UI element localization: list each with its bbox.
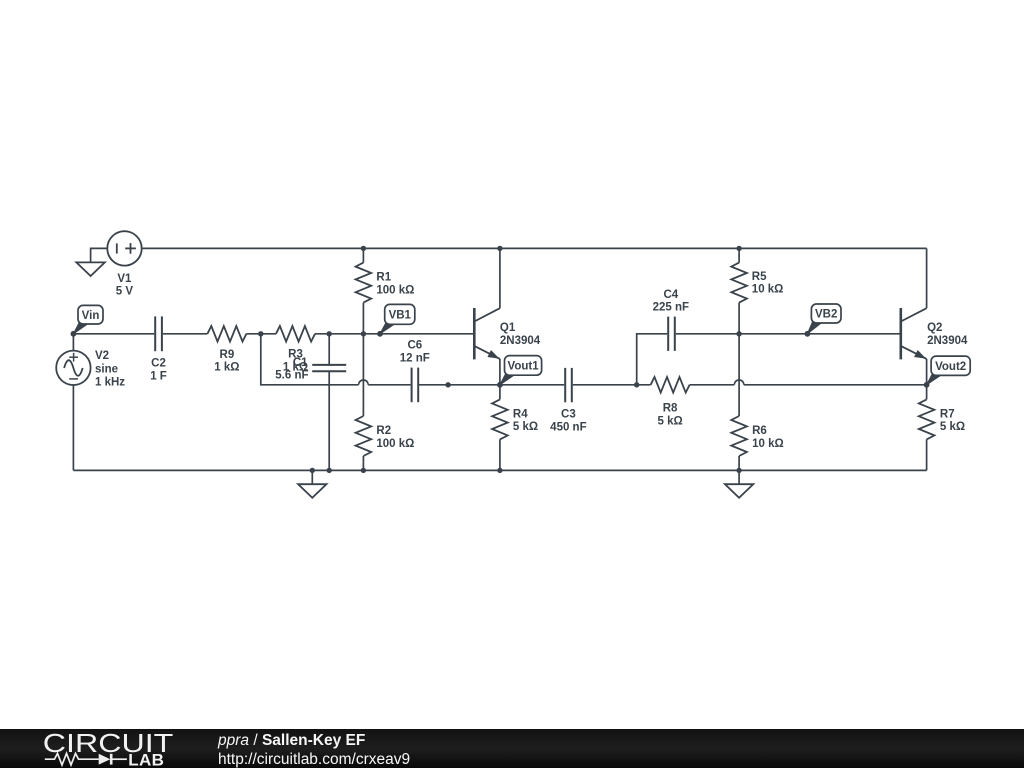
svg-text:V2: V2 bbox=[95, 350, 109, 362]
capacitor C1 bbox=[312, 365, 346, 371]
node label Vout2 bbox=[924, 356, 971, 388]
voltage source V2 bbox=[56, 351, 90, 385]
wire Vout1 to C3 bbox=[500, 384, 564, 386]
svg-text:R6: R6 bbox=[752, 425, 767, 437]
wire hop to Q2 emitter node bbox=[744, 384, 927, 386]
resistor R9 bbox=[207, 326, 246, 342]
svg-text:10 kΩ: 10 kΩ bbox=[752, 284, 784, 296]
wire hop over R5-R6 branch bbox=[734, 380, 744, 385]
wire Vin to C2 bbox=[73, 333, 154, 335]
label R4 5 kOhm bbox=[513, 409, 538, 433]
svg-text:C1: C1 bbox=[293, 357, 308, 369]
wire R4 top lead bbox=[499, 385, 501, 400]
svg-text:C2: C2 bbox=[151, 358, 166, 370]
svg-text:100 kΩ: 100 kΩ bbox=[376, 438, 414, 450]
wire Q1 emitter down bbox=[499, 359, 501, 385]
ground GND3 bbox=[725, 484, 753, 498]
node C6-Q1 wire junction bbox=[445, 382, 450, 387]
capacitor C4 bbox=[668, 317, 675, 351]
wire R2 top lead bbox=[362, 334, 364, 416]
node label Vin bbox=[71, 305, 104, 336]
svg-text:VB1: VB1 bbox=[389, 310, 412, 322]
label C1 5.6 nF bbox=[275, 357, 308, 382]
svg-text:Vout1: Vout1 bbox=[508, 361, 540, 373]
wire ground GND2 stem bbox=[311, 470, 313, 484]
svg-text:1 F: 1 F bbox=[150, 370, 167, 382]
voltage source V1 bbox=[107, 231, 141, 265]
node top rail R1 bbox=[361, 246, 366, 251]
label C6 12 nF bbox=[400, 340, 430, 365]
wire R5 bottom lead bbox=[738, 303, 740, 334]
node bottom rail R6-GND3 bbox=[736, 468, 741, 473]
wire C2 to R9 bbox=[163, 333, 208, 335]
wire R6 bottom lead bbox=[738, 456, 740, 470]
wire Q2 emitter down bbox=[926, 359, 928, 385]
label R7 5 kOhm bbox=[940, 409, 965, 433]
capacitor C3 bbox=[565, 368, 572, 402]
capacitor C2 bbox=[155, 316, 162, 351]
node bottom rail R2 bbox=[361, 468, 366, 473]
wire R2 bottom lead bbox=[362, 456, 364, 470]
resistor R6 bbox=[731, 416, 747, 456]
svg-text:12 nF: 12 nF bbox=[400, 352, 430, 364]
svg-text:5.6 nF: 5.6 nF bbox=[275, 370, 308, 382]
wire C1 branch top bbox=[328, 334, 330, 364]
svg-text:R8: R8 bbox=[663, 403, 678, 415]
wire V1 to ground bbox=[91, 248, 108, 262]
svg-text:Q1: Q1 bbox=[500, 322, 516, 334]
wire R7 bottom lead bbox=[926, 439, 928, 470]
node Vin vertical wire to V2 bbox=[72, 334, 74, 351]
label V2 sine 1 kHz bbox=[95, 350, 125, 388]
svg-text:R7: R7 bbox=[940, 409, 955, 421]
svg-text:100 kΩ: 100 kΩ bbox=[376, 285, 414, 297]
wire Q1 collector to rail bbox=[499, 248, 501, 308]
node label Vout1 bbox=[497, 356, 542, 388]
label Q1 2N3904 bbox=[500, 322, 541, 347]
resistor R2 bbox=[356, 416, 372, 456]
resistor R5 bbox=[731, 263, 747, 303]
svg-text:Q2: Q2 bbox=[927, 322, 942, 334]
wire R1 top lead bbox=[362, 248, 364, 262]
label R2 100 kOhm bbox=[376, 425, 414, 450]
svg-text:R5: R5 bbox=[752, 271, 767, 283]
svg-text:C6: C6 bbox=[407, 340, 422, 352]
wire hop to C6 bbox=[368, 384, 410, 386]
node top rail Q1 collector bbox=[497, 246, 502, 251]
svg-text:Vout2: Vout2 bbox=[935, 361, 966, 373]
wire C6 to Q1 emitter node bbox=[419, 384, 500, 386]
svg-text:Vin: Vin bbox=[82, 310, 100, 322]
svg-text:1 kΩ: 1 kΩ bbox=[214, 362, 239, 374]
wire V2 bottom to rail bbox=[72, 385, 74, 470]
svg-text:2N3904: 2N3904 bbox=[927, 335, 968, 347]
ground GND2 bbox=[298, 484, 326, 498]
wire R7 top lead bbox=[926, 385, 928, 400]
node C1 top junction bbox=[327, 331, 332, 336]
svg-text:450 nF: 450 nF bbox=[550, 421, 586, 433]
capacitor C6 bbox=[412, 368, 419, 403]
svg-text:5 kΩ: 5 kΩ bbox=[657, 415, 682, 427]
wire VB2 to Q2 base bbox=[739, 333, 901, 335]
svg-text:R2: R2 bbox=[376, 425, 391, 437]
transistor Q2 bbox=[901, 308, 927, 359]
label R1 100 kOhm bbox=[376, 272, 414, 297]
node A R9-R3 junction bbox=[258, 331, 263, 336]
svg-text:5 kΩ: 5 kΩ bbox=[940, 421, 965, 433]
svg-text:R4: R4 bbox=[513, 409, 528, 421]
svg-text:C3: C3 bbox=[561, 409, 576, 421]
resistor R4 bbox=[492, 399, 508, 439]
node C4 branch bottom bbox=[634, 382, 639, 387]
svg-text:5 kΩ: 5 kΩ bbox=[513, 421, 538, 433]
label R3 1 kOhm bbox=[283, 349, 308, 374]
node label VB1 bbox=[377, 304, 415, 336]
svg-text:5 V: 5 V bbox=[116, 285, 134, 297]
svg-text:C4: C4 bbox=[663, 289, 678, 301]
resistor R1 bbox=[356, 263, 372, 303]
node R1-R2 mid junction bbox=[361, 331, 366, 336]
label R9 1 kOhm bbox=[214, 349, 239, 374]
label Q2 2N3904 bbox=[927, 322, 968, 347]
transistor Q1 bbox=[474, 308, 500, 359]
resistor R7 bbox=[919, 399, 935, 439]
wire node A down-left loop bbox=[261, 334, 359, 385]
svg-text:VB2: VB2 bbox=[815, 309, 837, 321]
svg-text:LAB: LAB bbox=[128, 750, 164, 768]
wire ground GND3 stem bbox=[738, 470, 740, 484]
label C3 450 nF bbox=[550, 409, 586, 434]
node label VB2 bbox=[805, 304, 842, 337]
label R5 10 kOhm bbox=[752, 271, 784, 296]
svg-text:1 kHz: 1 kHz bbox=[95, 377, 125, 389]
wire top rail bbox=[142, 247, 927, 249]
wire C4 to R5 node bbox=[676, 333, 739, 335]
label R6 10 kOhm bbox=[752, 425, 784, 450]
wire bottom rail bbox=[73, 469, 926, 471]
wire R1 bottom lead bbox=[362, 303, 364, 334]
svg-text:R1: R1 bbox=[376, 272, 391, 284]
svg-text:2N3904: 2N3904 bbox=[500, 335, 541, 347]
node bottom rail R4 bbox=[497, 468, 502, 473]
wire R6 top lead bbox=[738, 334, 740, 416]
wire R4 bottom lead bbox=[499, 439, 501, 470]
wire R3 to Q1 base bbox=[315, 333, 474, 335]
credit text bbox=[218, 731, 410, 768]
wire R9 to R3 bbox=[246, 333, 276, 335]
label C2 1 F bbox=[150, 358, 167, 383]
wire C3 to node B bbox=[573, 384, 651, 386]
label R8 5 kOhm bbox=[657, 403, 682, 428]
resistor R3 bbox=[276, 326, 315, 342]
wire C1 branch bottom bbox=[328, 372, 330, 470]
footer bar bbox=[0, 729, 1024, 768]
svg-text:R9: R9 bbox=[220, 349, 235, 361]
svg-text:V1: V1 bbox=[117, 273, 132, 285]
wire hop over R1-R2 branch bbox=[359, 380, 369, 385]
node R5-C4 junction bbox=[736, 331, 741, 336]
wire Q2 collector to rail bbox=[926, 248, 928, 308]
ground GND1 (V1) bbox=[76, 262, 104, 276]
wire C4 branch left bbox=[637, 334, 668, 385]
svg-text:10 kΩ: 10 kΩ bbox=[752, 438, 784, 450]
svg-text:sine: sine bbox=[95, 363, 118, 375]
label V1 5 V bbox=[116, 273, 134, 298]
node top rail R5 bbox=[736, 246, 741, 251]
CircuitLab logo bbox=[30, 729, 190, 768]
wire R8 to hop bbox=[690, 384, 735, 386]
node bottom rail GND2 bbox=[310, 468, 315, 473]
svg-text:225 nF: 225 nF bbox=[653, 302, 689, 314]
resistor R8 bbox=[651, 377, 690, 393]
wire R5 top lead bbox=[738, 248, 740, 262]
node bottom rail C1 bbox=[327, 468, 332, 473]
label C4 225 nF bbox=[653, 289, 689, 314]
